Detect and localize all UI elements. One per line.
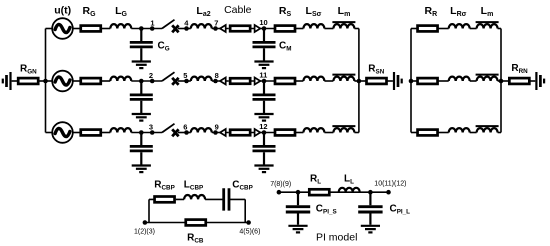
svg-text:La2: La2 (196, 5, 210, 18)
svg-text:RGN: RGN (20, 63, 37, 75)
svg-text:LL: LL (344, 174, 354, 186)
svg-text:10(11)(12): 10(11)(12) (374, 181, 406, 188)
svg-text:RCBP: RCBP (154, 179, 175, 191)
svg-text:9: 9 (215, 122, 219, 131)
svg-text:LCBP: LCBP (184, 179, 203, 191)
svg-text:12: 12 (259, 122, 267, 131)
svg-text:CPI_S: CPI_S (316, 204, 337, 216)
svg-text:LG: LG (115, 5, 127, 18)
svg-text:1: 1 (150, 18, 154, 27)
svg-text:Lm: Lm (338, 5, 351, 18)
svg-text:CM: CM (279, 41, 291, 53)
svg-text:Lm: Lm (481, 5, 494, 18)
svg-text:CCBP: CCBP (232, 179, 253, 191)
svg-text:2: 2 (149, 71, 153, 80)
svg-text:1(2)(3): 1(2)(3) (134, 228, 155, 235)
svg-text:5: 5 (183, 71, 187, 80)
svg-text:CG: CG (158, 41, 170, 53)
svg-text:LRσ: LRσ (450, 5, 466, 18)
svg-text:RCB: RCB (187, 233, 204, 245)
svg-text:11: 11 (259, 70, 267, 79)
svg-text:RG: RG (82, 5, 96, 18)
svg-text:6: 6 (183, 122, 187, 131)
svg-text:RS: RS (279, 5, 292, 18)
svg-text:PI model: PI model (316, 232, 357, 244)
svg-text:8: 8 (215, 71, 219, 80)
svg-text:7: 7 (214, 18, 218, 27)
svg-text:10: 10 (259, 18, 267, 27)
svg-text:Cable: Cable (224, 4, 252, 16)
svg-text:u(t): u(t) (54, 4, 71, 16)
svg-text:4: 4 (184, 18, 189, 27)
svg-text:RRN: RRN (511, 63, 528, 75)
svg-text:RSN: RSN (368, 63, 384, 75)
svg-text:4(5)(6): 4(5)(6) (239, 228, 260, 235)
svg-text:RR: RR (424, 5, 437, 18)
svg-text:7(8)(9): 7(8)(9) (270, 181, 291, 188)
svg-text:RL: RL (310, 174, 321, 186)
svg-text:LSσ: LSσ (306, 5, 322, 18)
svg-text:CPI_L: CPI_L (390, 204, 411, 216)
svg-text:3: 3 (149, 122, 153, 131)
